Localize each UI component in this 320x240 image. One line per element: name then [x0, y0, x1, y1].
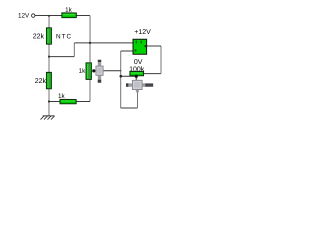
wire relay lower pin stub — [121, 50, 133, 52]
wire bus to Q2 gate — [121, 75, 137, 77]
wire top +12V rail — [35, 14, 90, 16]
svg-text:22k: 22k — [35, 78, 47, 85]
wire transistor Q1 drain lead — [103, 70, 121, 72]
wire bottom rail — [49, 100, 90, 102]
resistor R5 1k (bottom horizontal) — [60, 99, 76, 103]
wire relay right pin — [147, 45, 162, 47]
svg-text:+12V: +12V — [134, 29, 151, 36]
svg-text:1k: 1k — [65, 7, 73, 14]
svg-text:NTC: NTC — [56, 33, 72, 40]
transistor Q2 — [126, 75, 153, 93]
wire to relay upper pin — [74, 42, 133, 44]
resistor R6 100k (horizontal) — [130, 71, 144, 75]
resistor R4 1k (vertical mid) — [86, 63, 91, 80]
svg-text:100k: 100k — [129, 66, 145, 73]
wire divider mid riser — [73, 43, 75, 57]
resistor R2 22k NTC (vertical) — [46, 28, 51, 44]
resistor R1 1k (top horizontal) — [62, 13, 77, 18]
svg-text:1k: 1k — [58, 93, 66, 100]
wire right column vertical — [160, 46, 162, 74]
node bottom rail left — [48, 100, 50, 102]
relay K1 (green box) — [133, 39, 147, 54]
wire left divider vertical — [48, 15, 50, 115]
node crossing at riser — [89, 42, 91, 44]
svg-text:12V: 12V — [18, 13, 30, 20]
node bus-gate junction — [119, 75, 122, 78]
wire bottom U riser — [136, 92, 138, 108]
wire divider mid horizontal — [49, 56, 74, 58]
node divider mid — [48, 55, 50, 57]
terminal 12V — [32, 14, 35, 17]
resistor R3 22k (vertical lower) — [46, 72, 51, 88]
ground — [40, 116, 54, 120]
wire right branch vertical — [89, 15, 91, 101]
svg-text:22k: 22k — [33, 33, 45, 40]
transistor Q1 — [92, 60, 103, 83]
node top rail tap — [48, 15, 50, 17]
svg-text:1k: 1k — [79, 68, 87, 75]
svg-text:0V: 0V — [134, 59, 143, 66]
wire bottom U horizontal — [121, 107, 138, 109]
wire middle vertical bus — [120, 51, 122, 108]
wire 100k right lead — [143, 73, 161, 75]
